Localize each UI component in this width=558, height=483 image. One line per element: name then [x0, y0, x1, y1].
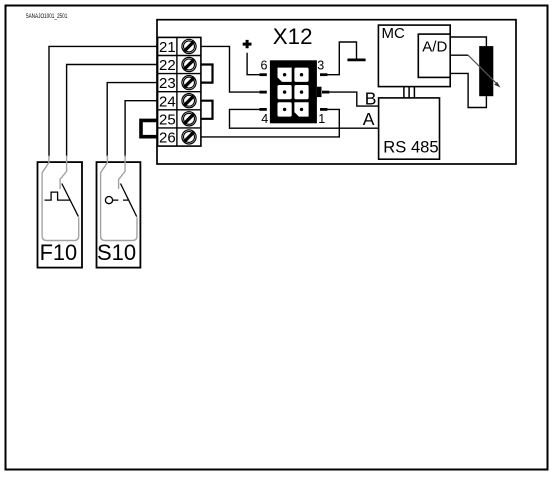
svg-text:F10: F10 — [40, 240, 78, 265]
svg-text:MC: MC — [382, 25, 405, 42]
connector X12 body — [270, 60, 317, 123]
wire connector pin 3 to ground — [327, 42, 357, 75]
svg-text:3: 3 — [317, 59, 324, 73]
svg-text:21: 21 — [159, 39, 176, 56]
svg-text:RS 485: RS 485 — [383, 137, 438, 156]
connector pin stub 6 — [259, 73, 266, 76]
connector pin dot row2 col1 — [283, 90, 286, 93]
wire connector pin 2 to RS485 B — [329, 92, 378, 106]
bus line 1 MC to RS485 — [403, 87, 405, 98]
controller enclosure box — [157, 20, 516, 164]
wire A/D to potentiometer bottom — [450, 73, 486, 107]
F10 switch lever — [62, 184, 79, 217]
RS 485 block — [379, 98, 440, 159]
jumper bracket terminals 24-25 — [201, 101, 213, 119]
F10 right prong — [60, 156, 67, 189]
connector cavity row2 col2 — [294, 85, 308, 99]
connector pin stub 5 — [259, 91, 266, 94]
MC block U1 — [378, 25, 450, 87]
wire connector pin 4 to RS485 A — [230, 109, 379, 128]
S10 body outline — [101, 156, 137, 241]
svg-text:5ANAJO1001_2501: 5ANAJO1001_2501 — [26, 14, 68, 20]
ground symbol — [347, 59, 365, 62]
S10 actuator circle — [105, 197, 112, 204]
connector pin dot row3 col2 — [300, 108, 303, 111]
wire A/D to potentiometer top — [450, 37, 486, 46]
svg-text:A/D: A/D — [422, 38, 447, 55]
wire terminal 26 to connector pin 1 — [201, 109, 339, 136]
connector pin dot row3 col1 — [283, 108, 286, 111]
connector cavity row2 col1 — [278, 85, 292, 99]
svg-text:26: 26 — [159, 130, 176, 147]
screw terminal 26 — [182, 130, 196, 144]
connector pin dot row2 col2 — [300, 90, 303, 93]
svg-text:S10: S10 — [97, 240, 136, 265]
potentiometer R1 body — [479, 46, 493, 96]
screw terminal 21 — [182, 39, 196, 53]
thick jumper wire terminals 25-26 — [141, 120, 159, 136]
svg-text:23: 23 — [159, 75, 176, 92]
screw terminal 25 — [182, 112, 196, 126]
connector pin dot row1 col1 — [283, 73, 286, 76]
svg-text:25: 25 — [159, 111, 176, 128]
screw terminal 24 — [182, 94, 196, 108]
wire terminal 21 to connector pin 5 — [201, 46, 260, 92]
wire terminal 24 to S10 right — [125, 101, 158, 157]
connector pin stub 2 — [322, 91, 329, 94]
svg-text:22: 22 — [159, 57, 176, 74]
svg-text:B: B — [365, 88, 377, 108]
S10 right prong — [119, 156, 126, 189]
svg-text:24: 24 — [159, 93, 176, 110]
svg-text:4: 4 — [261, 112, 268, 126]
plus supply symbol — [243, 40, 252, 48]
level switch S10 box — [97, 162, 141, 268]
potentiometer wiper arrow — [468, 55, 497, 84]
wire A/D to potentiometer wiper — [450, 54, 468, 56]
connector pin stub 4 — [259, 108, 266, 111]
connector pin dot row1 col2 — [300, 73, 303, 76]
jumper bracket terminals 22-23 — [201, 65, 213, 83]
bus line 3 MC to RS485 — [413, 87, 415, 98]
connector cavity row3 col1 — [278, 102, 292, 116]
bus line 2 MC to RS485 — [408, 87, 410, 98]
wire terminal 21 to F10 left — [49, 46, 158, 156]
screw terminal 23 — [182, 76, 196, 90]
svg-text:A: A — [363, 109, 375, 129]
F10 flow actuator symbol — [45, 192, 71, 200]
connector cavity row1 col2 — [294, 68, 308, 82]
wire terminal 23 to S10 left — [107, 83, 157, 157]
svg-text:6: 6 — [261, 59, 268, 73]
terminal block X — [158, 37, 201, 146]
wire plus to connector pin 6 — [247, 53, 259, 75]
S10 switch lever — [121, 184, 137, 217]
S10 actuator dashed link — [113, 199, 129, 201]
connector cavity row3 col2 — [294, 102, 308, 116]
connector pin stub 3 — [320, 73, 327, 76]
connector pin stub 1 — [320, 108, 327, 111]
connector key tab — [317, 87, 322, 97]
connector cavity row1 col1 — [278, 68, 292, 82]
screw terminal 22 — [182, 57, 196, 71]
svg-text:X12: X12 — [273, 24, 313, 49]
flow switch F10 box — [38, 162, 83, 268]
A/D block — [418, 34, 450, 77]
F10 body outline — [42, 156, 79, 241]
svg-text:1: 1 — [318, 112, 325, 126]
wire terminal 22 to F10 right — [67, 65, 158, 157]
